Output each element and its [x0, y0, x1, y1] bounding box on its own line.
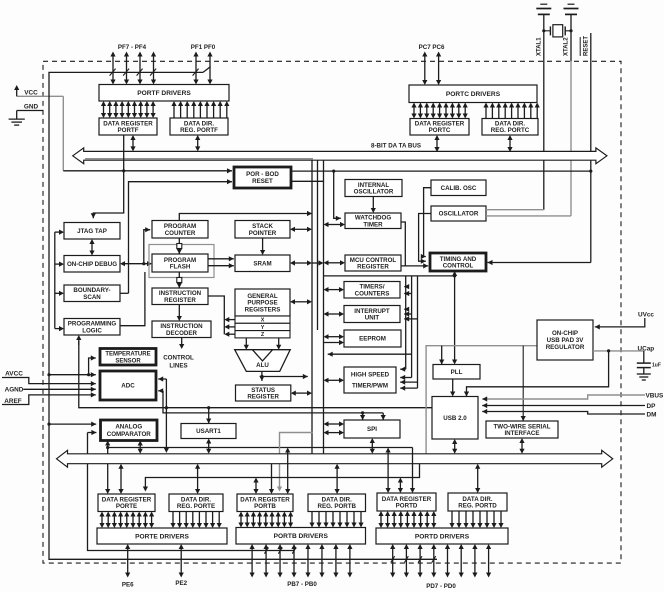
arrows DATA DIR REG PORTD to PORTD DRIVERS — [449, 511, 503, 528]
wire central trunk T1 — [311, 160, 313, 454]
wire ON-CHIP DEBUG to PROGRAM FLASH — [124, 263, 148, 265]
wire PB taps line to ANALOG COMPARATOR — [88, 433, 295, 551]
svg-text:HIGH SPEED: HIGH SPEED — [351, 372, 390, 379]
svg-text:TIMER/PWM: TIMER/PWM — [352, 383, 388, 390]
block INTERNAL OSCILLATOR — [345, 180, 402, 197]
svg-text:REG. PORTF: REG. PORTF — [180, 127, 218, 134]
pin XTAL2 — [570, 15, 572, 62]
wire OSCILLATOR to TIMING AND CONTROL — [419, 214, 431, 262]
capacitor ground — [637, 374, 651, 380]
svg-text:POINTER: POINTER — [249, 230, 277, 237]
wire bus to DATA REGISTER PORTE — [120, 468, 122, 490]
block INSTRUCTION DECODER — [152, 321, 211, 338]
block TWO-WIRE SERIAL INTERFACE — [486, 421, 558, 438]
wire regulator to USB — [467, 351, 609, 397]
block INSTRUCTION REGISTER — [152, 288, 208, 305]
svg-text:RESET: RESET — [584, 36, 590, 56]
pin PE6 — [127, 548, 129, 573]
block DATA DIR REG PORTE — [169, 494, 223, 512]
pin XTAL1 — [543, 15, 545, 210]
block DATA REGISTER PORTB — [237, 494, 293, 512]
arrows DATA REGISTER PORTB to PORTB DRIVERS — [238, 512, 293, 528]
block HIGH SPEED TIMER/PWM — [344, 367, 396, 393]
svg-text:JTAG TAP: JTAG TAP — [77, 228, 107, 235]
wire gray top to TWSI — [522, 346, 524, 421]
block EEPROM — [344, 330, 401, 347]
svg-text:LINES: LINES — [169, 363, 187, 370]
svg-text:1uF: 1uF — [652, 362, 661, 368]
wire USART1 to bus — [208, 443, 210, 450]
svg-text:PE6: PE6 — [122, 582, 134, 589]
wire TWO-WIRE SERIAL INTERFACE to bus — [521, 442, 523, 449]
wire TIMING AND CONTROL to peripheral column — [454, 275, 456, 360]
svg-text:VCC: VCC — [24, 90, 38, 97]
wire ON-CHIP DEBUG to PROGRAM COUNTER — [144, 230, 150, 264]
svg-text:VBUS: VBUS — [646, 392, 664, 399]
svg-text:PORTD DRIVERS: PORTD DRIVERS — [415, 533, 470, 540]
block PLL — [433, 365, 480, 380]
wire STACK POINTER to trunk — [294, 228, 308, 230]
svg-text:POR - BOD: POR - BOD — [246, 171, 279, 178]
block SRAM — [235, 255, 290, 272]
svg-text:ANALOG: ANALOG — [115, 424, 142, 431]
8-bit data bus (lower band) — [57, 450, 613, 467]
svg-text:LOGIC: LOGIC — [82, 327, 102, 334]
wire ADC to SPI/USB (L3) — [163, 391, 383, 413]
block PROGRAMMING LOGIC — [64, 319, 120, 336]
svg-text:DP: DP — [647, 403, 657, 410]
wire PROGRAM COUNTER to trunk — [179, 214, 312, 221]
wire capture line to DATA REGISTER PORTB — [287, 452, 289, 490]
block INTERRUPT UNIT — [344, 306, 400, 323]
wires PROGRAM FLASH to SRAM — [208, 258, 234, 260]
arrows into INTERRUPT UNIT right — [404, 308, 406, 310]
wire analog inputs to ADC — [49, 374, 96, 376]
wire INSTRUCTION REGISTER to INSTRUCTION DECODER — [178, 305, 180, 317]
svg-text:PORTD: PORTD — [396, 503, 418, 510]
svg-text:ALU: ALU — [256, 362, 269, 369]
arrows DATA DIR REG PORTE to PORTE DRIVERS — [170, 512, 221, 529]
wire PROGRAMMING LOGIC to PROGRAM FLASH — [120, 272, 145, 326]
chip boundary (dashed) — [43, 61, 621, 563]
svg-text:USB PAD 3V: USB PAD 3V — [547, 337, 585, 344]
block BOUNDARY-SCAN — [64, 285, 120, 302]
block DATA DIR REG PORTD — [448, 493, 507, 511]
register Z — [235, 331, 290, 338]
wire to TEMPERATURE SENSOR — [89, 358, 96, 375]
wire JTAG TAP to ON-CHIP DEBUG — [91, 243, 93, 251]
svg-text:DM: DM — [647, 411, 657, 418]
block WATCHDOG TIMER — [345, 213, 401, 229]
pin GND — [17, 110, 44, 112]
wire SPI to bus — [371, 442, 373, 449]
block TIMERS/ COUNTERS — [344, 282, 400, 299]
gray shadow of PROGRAM FLASH — [149, 245, 214, 278]
arrows DATA REGISTER PORTD to PORTD DRIVERS — [378, 511, 436, 528]
svg-text:8-BIT DA TA BUS: 8-BIT DA TA BUS — [371, 142, 421, 149]
svg-text:USB 2.0: USB 2.0 — [443, 415, 467, 422]
block STACK POINTER — [235, 221, 290, 239]
svg-text:TEMPERATURE: TEMPERATURE — [105, 352, 150, 358]
wire bus to DATA DIR REG PORTE — [197, 468, 199, 490]
wire bus to DATA DIR REG PORTB — [336, 468, 338, 490]
pins PB7-PB0 — [251, 548, 253, 573]
block DATA REGISTER PORTE — [98, 494, 155, 512]
svg-text:GND: GND — [24, 104, 39, 111]
wire RESET to TIMING AND CONTROL — [488, 262, 591, 264]
arrows DATA REGISTER PORTE to PORTE DRIVERS — [99, 512, 154, 529]
svg-text:REGISTER: REGISTER — [357, 264, 389, 271]
svg-text:PD7 - PD0: PD7 - PD0 — [426, 583, 456, 590]
block STATUS REGISTER — [236, 385, 291, 401]
svg-text:PORTF DRIVERS: PORTF DRIVERS — [137, 90, 191, 97]
block PROGRAM COUNTER — [152, 221, 208, 239]
pins PD7-PD0 — [392, 548, 394, 573]
svg-text:INTERFACE: INTERFACE — [504, 430, 539, 437]
block PORTB DRIVERS — [236, 528, 366, 545]
wire TIMERS/COUNTERS to trunk — [328, 289, 340, 291]
svg-text:PORTC DRIVERS: PORTC DRIVERS — [446, 91, 501, 98]
pin RESET (active low) — [590, 33, 592, 263]
svg-text:PORTC: PORTC — [429, 127, 451, 134]
latch between PROGRAM COUNTER and PROGRAM FLASH — [178, 238, 180, 254]
wire central trunk T2 — [317, 160, 319, 330]
wire debug chain feed — [54, 232, 56, 329]
wire DATA DIR REG PORTC to data bus — [509, 139, 511, 148]
gray line inside upper bus — [85, 158, 313, 160]
wire WATCHDOG TIMER to trunk — [328, 224, 341, 226]
svg-text:UVcc: UVcc — [638, 312, 654, 319]
arrows into TIMERS/COUNTERS right — [404, 286, 406, 288]
block DATA DIR REG PORTB — [308, 494, 366, 512]
block ADC — [100, 371, 156, 400]
block PORTC DRIVERS — [409, 85, 537, 103]
svg-text:TIMER: TIMER — [363, 221, 383, 228]
wire SPI top feed from L3 — [362, 413, 364, 420]
wire GENERAL PURPOSE REGISTERS to trunk — [294, 301, 308, 303]
svg-text:REGISTER: REGISTER — [164, 297, 196, 304]
wire analog trunk top — [49, 72, 437, 559]
8-bit data bus (upper band) — [73, 148, 607, 164]
svg-text:ADC: ADC — [121, 383, 135, 390]
svg-text:AGND: AGND — [5, 386, 24, 393]
wire MCU CONTROL REGISTER to TIMING AND CONTROL — [401, 265, 428, 267]
wire OSCILLATOR to XTAL1 (gray) — [486, 209, 544, 211]
svg-text:DECODER: DECODER — [166, 330, 197, 337]
wire bus to DATA REGISTER PORTB — [271, 464, 273, 490]
block DATA DIR REG PORTF — [170, 118, 228, 135]
wire EEPROM to trunk — [328, 336, 340, 338]
svg-text:USART1: USART1 — [196, 428, 221, 435]
svg-text:XTAL1: XTAL1 — [537, 37, 543, 56]
wire comparator capture line — [108, 447, 413, 449]
wire to USART1 top — [208, 408, 210, 424]
wire ALU to STATUS REGISTER — [261, 371, 263, 381]
wire GPR to ALU (right) — [278, 338, 280, 346]
gray wire trunk to DATA REGISTER PORTB — [280, 433, 314, 490]
svg-text:COMPARATOR: COMPARATOR — [107, 431, 152, 438]
wire central trunk T3 — [323, 160, 325, 454]
svg-text:PORTB: PORTB — [254, 503, 276, 510]
svg-text:PORTB DRIVERS: PORTB DRIVERS — [274, 533, 329, 540]
svg-text:PE2: PE2 — [175, 580, 187, 587]
wire POR-BOD to watchdog / reset line — [291, 170, 591, 172]
wire SPI to trunk — [328, 423, 340, 425]
svg-text:RESET: RESET — [252, 178, 273, 185]
svg-text:PORTE: PORTE — [116, 503, 137, 510]
svg-text:REGISTER: REGISTER — [247, 394, 279, 401]
svg-text:CALIB. OSC: CALIB. OSC — [441, 185, 477, 192]
svg-text:XTAL2: XTAL2 — [564, 37, 570, 56]
block GENERAL PURPOSE REGISTERS — [235, 289, 290, 316]
svg-text:SRAM: SRAM — [253, 260, 271, 267]
svg-text:OSCILLATOR: OSCILLATOR — [354, 189, 394, 196]
wire ADC to data bus — [165, 379, 167, 449]
wire INTERNAL OSCILLATOR to WATCHDOG TIMER — [372, 197, 374, 209]
block ON-CHIP USB PAD 3V REGULATOR — [537, 320, 593, 360]
block ON-CHIP DEBUG — [64, 256, 120, 273]
svg-text:PLL: PLL — [451, 369, 463, 376]
wire DATA REGISTER PORTF to data bus — [132, 139, 134, 147]
XTAL1 load cap to ground — [536, 4, 551, 14]
wire OSCILLATOR to XTAL2 (gray) — [486, 215, 571, 217]
svg-text:REG. PORTE: REG. PORTE — [177, 503, 215, 510]
svg-text:PORTF: PORTF — [118, 127, 139, 134]
wire ANALOG COMPARATOR to port E register — [107, 445, 109, 490]
block DATA REGISTER PORTC — [410, 119, 469, 136]
svg-text:ON-CHIP DEBUG: ON-CHIP DEBUG — [67, 261, 117, 268]
wire MCU CONTROL REGISTER to trunk — [328, 262, 341, 264]
svg-text:PF7 - PF4: PF7 - PF4 — [118, 44, 147, 51]
svg-text:SENSOR: SENSOR — [115, 358, 141, 364]
svg-text:UNIT: UNIT — [365, 315, 380, 322]
svg-text:REGISTERS: REGISTERS — [245, 307, 281, 314]
block PORTD DRIVERS — [376, 528, 508, 544]
wires peripheral clock drops — [405, 276, 407, 369]
wire gray top to PLL — [441, 346, 443, 365]
svg-text:COUNTERS: COUNTERS — [355, 290, 390, 297]
XTAL2 load cap to ground — [564, 4, 579, 14]
block PROGRAM FLASH — [152, 254, 208, 272]
svg-text:Y: Y — [261, 325, 265, 331]
block JTAG TAP — [64, 223, 120, 240]
wire BOUNDARY-SCAN to POR-BOD — [120, 292, 129, 294]
wire CALIB OSC to TIMING AND CONTROL — [424, 188, 431, 257]
block CALIB OSC — [431, 180, 486, 196]
wire POR-BOD to trunk — [291, 180, 324, 182]
gray USB module boundary — [426, 346, 537, 456]
wire STACK POINTER to SRAM — [262, 238, 264, 251]
wire PLL to USB — [452, 379, 454, 392]
block DATA DIR REG PORTC — [482, 119, 538, 136]
block DATA REGISTER PORTF — [99, 118, 157, 135]
svg-text:FLASH: FLASH — [170, 264, 191, 271]
wire bus to DATA DIR REG PORTD — [477, 468, 479, 489]
svg-text:PB7 - PB0: PB7 - PB0 — [287, 581, 317, 588]
svg-text:ON-CHIP: ON-CHIP — [552, 330, 578, 337]
wire INTERRUPT UNIT to trunk — [328, 313, 340, 315]
wire PROGRAMMING LOGIC bottom feed to L1 — [78, 339, 80, 345]
block USART1 — [181, 424, 236, 439]
svg-text:X: X — [261, 318, 265, 324]
svg-text:CONTROL: CONTROL — [163, 355, 194, 362]
svg-text:REGULATOR: REGULATOR — [546, 344, 585, 351]
svg-text:PF1 PF0: PF1 PF0 — [191, 44, 216, 51]
block ANALOG COMPARATOR — [101, 420, 158, 441]
wire HIGH SPEED TIMER to trunk — [328, 379, 340, 381]
arrows into HIGH SPEED TIMER right — [400, 368, 406, 370]
arrows DATA DIR REG PORTB to PORTB DRIVERS — [309, 512, 363, 528]
wire STATUS REGISTER to trunk — [295, 392, 308, 394]
arrows DATA DIR REG PORTF to PORTF DRIVERS — [171, 101, 229, 118]
wire INSTRUCTION DECODER to control lines — [181, 338, 183, 345]
ALU — [235, 350, 291, 372]
wire WATCHDOG TIMER to TIMING AND CONTROL — [401, 222, 405, 266]
svg-text:SCAN: SCAN — [83, 294, 101, 301]
wire DATA REG PORTF down to JTAG TAP — [93, 135, 123, 218]
wire USB to bus — [454, 443, 456, 449]
register X — [235, 316, 290, 323]
svg-text:CONTROL: CONTROL — [443, 263, 474, 270]
block POR-BOD RESET — [234, 167, 291, 188]
block PORTE DRIVERS — [97, 528, 227, 544]
svg-text:REG. PORTD: REG. PORTD — [458, 503, 497, 510]
svg-text:COUNTER: COUNTER — [165, 230, 196, 237]
block SPI — [344, 420, 400, 438]
block DATA REGISTER PORTD — [377, 493, 436, 511]
wire to trunk arrow — [328, 353, 412, 355]
wire capture line to DATA REGISTER PORTD — [387, 452, 389, 489]
wire DATA DIR REG PORTF to data bus — [197, 139, 199, 147]
block USB 2.0 — [432, 397, 478, 440]
svg-text:AVCC: AVCC — [5, 371, 23, 378]
block PORTF DRIVERS — [99, 85, 229, 102]
block OSCILLATOR — [431, 206, 486, 221]
wire VCC to POR-BOD — [62, 96, 64, 171]
svg-text:REG. PORTB: REG. PORTB — [317, 503, 356, 510]
wire GPR to ALU (left) — [245, 338, 247, 346]
block TEMPERATURE SENSOR — [100, 349, 156, 366]
svg-text:PC7 PC6: PC7 PC6 — [419, 44, 445, 51]
svg-text:EEPROM: EEPROM — [359, 336, 386, 343]
port alternate-function line — [145, 464, 419, 490]
ground symbol — [9, 119, 25, 125]
latch between PROGRAM FLASH and INSTRUCTION REGISTER — [178, 272, 180, 288]
svg-text:PORTE DRIVERS: PORTE DRIVERS — [135, 533, 189, 540]
arrows PORTF DRIVERS to DATA REGISTER PORTF — [101, 101, 156, 118]
block MCU CONTROL REGISTER — [345, 255, 401, 271]
register Y — [235, 323, 290, 330]
crystal Y1 — [544, 25, 571, 37]
block TIMING AND CONTROL — [430, 253, 486, 271]
wires X Y Z indirect addressing to IR — [208, 296, 224, 334]
wire trunk to ANALOG COMPARATOR — [49, 423, 96, 425]
wire ANALOG COMPARATOR to bus — [139, 445, 141, 450]
svg-text:OSCILLATOR: OSCILLATOR — [439, 211, 479, 218]
wire SRAM to trunk — [294, 262, 308, 264]
capacitor 1uF — [643, 351, 645, 363]
pin VCC — [17, 95, 64, 97]
pin PE2 — [180, 548, 182, 573]
svg-text:REG. PORTC: REG. PORTC — [491, 127, 530, 134]
svg-text:SPI: SPI — [367, 426, 377, 433]
arrows PORTC DRIVERS to DATA REGISTER PORTC — [411, 103, 467, 119]
wire DATA REGISTER PORTC to data bus — [436, 139, 438, 148]
arrows DATA DIR REG PORTC to PORTC DRIVERS — [483, 103, 539, 119]
